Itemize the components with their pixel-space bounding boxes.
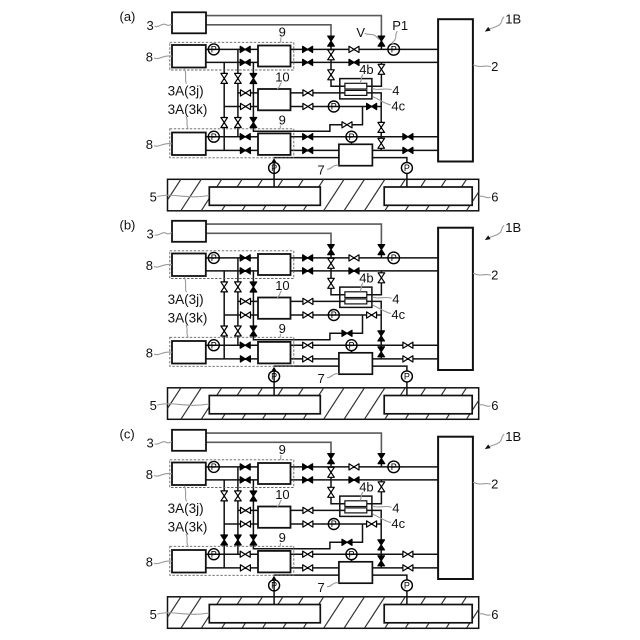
panel a: pump row1 <box>208 44 219 55</box>
svg-text:2: 2 <box>491 268 498 283</box>
panel c: dashed enclosure 3A row1 <box>170 460 294 488</box>
panel c: box 10 unit <box>258 507 291 528</box>
panel c: dashed enclosure 3A row2 <box>170 546 294 575</box>
svg-text:P: P <box>404 581 410 591</box>
panel a: valve V30 box10 upper-left (open) <box>241 90 251 96</box>
svg-text:4b: 4b <box>359 62 373 77</box>
panel a: wire row2 pump line y=136.7 <box>206 136 258 138</box>
svg-text:1B: 1B <box>505 11 521 26</box>
panel b: wire pump stub to box 7 <box>351 351 353 354</box>
panel b: valve V24 <box>235 326 242 336</box>
panel c: heat exchanger 4 lower tube 4c <box>345 508 367 513</box>
panel b: valve V14 <box>378 331 385 341</box>
panel a: control line from box 3 to heat-exchanger branch <box>206 25 331 36</box>
svg-text:P: P <box>271 163 277 173</box>
panel a: valve V9 (closed) <box>303 59 313 65</box>
svg-text:P: P <box>348 340 354 350</box>
panel a: dashed enclosure 3A row2 <box>170 129 294 158</box>
panel a: wire bypass branch down-left to line3 <box>253 107 362 132</box>
panel a: valve V14 <box>378 122 385 132</box>
panel a: valve V21 (open) <box>235 73 242 83</box>
panel a: valve V23 <box>221 118 228 128</box>
panel b: wire pump P6 drop to tank <box>273 371 275 397</box>
svg-text:P: P <box>391 462 397 472</box>
panel a: valve V17 <box>303 147 313 153</box>
panel c: valve V13 bypass <box>342 539 352 545</box>
panel c: arrow into box 9 row2 <box>272 576 277 580</box>
panel c: valve V2 (open) <box>328 467 335 477</box>
svg-text:8: 8 <box>146 258 153 273</box>
panel b: heat exchanger 4 outer <box>340 287 372 307</box>
panel a: valve V11 (open) <box>303 103 313 109</box>
panel c: valve V28 <box>240 551 250 557</box>
panel c: valve V1 (closed) <box>328 454 335 464</box>
svg-text:(a): (a) <box>120 9 136 24</box>
svg-text:P: P <box>271 581 277 591</box>
panel b: pump P1 main <box>388 252 400 264</box>
panel b: wire pipe2 return line y=62.4 <box>291 270 439 272</box>
panel b: valve V20 (open) <box>221 282 228 292</box>
panel a: valve V25 (closed) <box>250 118 257 128</box>
panel c: valve V6 pipe2 (closed) <box>349 477 359 483</box>
panel b: pump P6 below box 9 row2 <box>269 371 280 382</box>
svg-text:P: P <box>391 253 397 263</box>
panel c: valve V9 (closed) <box>303 477 313 483</box>
panel b: valve V30 box10 upper-left (open) <box>241 298 251 304</box>
svg-text:7: 7 <box>318 580 325 595</box>
panel c: valve V11 (open) <box>303 521 313 527</box>
panel c: box 9 row2 unit <box>258 551 291 573</box>
svg-text:3A(3j): 3A(3j) <box>168 501 204 516</box>
svg-text:3A(3k): 3A(3k) <box>168 519 208 534</box>
svg-text:3A(3k): 3A(3k) <box>168 310 208 325</box>
panel c: box 8 row2 heat source <box>172 550 206 573</box>
panel c: valve V5 pipe1 (open) <box>349 464 359 470</box>
panel c: valve V25 (closed) <box>250 535 257 545</box>
panel b: box 8 row1 heat source <box>172 254 206 277</box>
svg-text:5: 5 <box>150 398 157 413</box>
panel a: valve V22 (closed) <box>250 74 257 84</box>
panel a: wire row2 return y=150.4 <box>206 149 258 151</box>
svg-text:8: 8 <box>146 554 153 569</box>
svg-text:10: 10 <box>275 278 289 293</box>
panel b: valve V15 <box>378 347 385 357</box>
panel b: valve V13 bypass <box>342 330 352 336</box>
panel c: wire pump P8 down to buffer tank <box>406 591 408 606</box>
panel c: heat exchanger 4 upper tube 4b <box>345 501 367 507</box>
panel b: wire stub valve V to pipe1 <box>380 255 382 258</box>
panel c: valve V27 (closed) <box>240 477 250 483</box>
svg-text:3A(3j): 3A(3j) <box>168 292 204 307</box>
panel b: dashed enclosure 3A row2 <box>170 337 294 366</box>
panel a: pump hx line <box>328 101 339 112</box>
svg-text:4: 4 <box>392 83 399 98</box>
panel b: pump above box 7 <box>346 340 357 351</box>
panel a: wire pump line y=106.5 box10 to hx <box>291 106 382 108</box>
panel b: box 7 tank <box>339 353 373 374</box>
svg-text:8: 8 <box>146 345 153 360</box>
panel a: wire branch x=381.4 pipe2 to heat exchanger 4 <box>367 62 382 86</box>
panel a: valve V31 box10 lower-left (open) <box>241 103 251 109</box>
svg-text:P: P <box>404 163 410 173</box>
panel b: box 10 unit <box>258 298 291 319</box>
panel c: valve V26 (closed) <box>240 464 250 470</box>
panel c: valve V19 <box>403 565 413 571</box>
svg-text:4c: 4c <box>391 98 405 113</box>
panel a: box 9 row1 unit <box>258 46 291 67</box>
panel b: wire box10 upper-left port <box>238 300 258 302</box>
panel c: valve V24 <box>235 535 242 545</box>
panel a: wire pipe1 supply line y=49.4 <box>291 48 439 50</box>
panel b: buffer tank right in floor <box>384 396 472 414</box>
panel b: valve V9 (closed) <box>303 268 313 274</box>
panel a: wire box10 upper-left port <box>238 92 258 94</box>
panel b: hatched floor slab 5/6 <box>168 388 479 420</box>
panel a: arrow into box 9 row2 <box>272 158 277 162</box>
panel b: wire pump P8 down to buffer tank <box>406 382 408 397</box>
panel c: heat exchanger 4 outer <box>340 496 372 516</box>
panel c: wire bypass branch down-left to line3 <box>253 524 362 549</box>
panel c: pump above box 7 <box>346 549 357 560</box>
panel c: valve V7 (open) <box>378 482 385 492</box>
svg-text:P: P <box>211 253 217 263</box>
svg-text:P: P <box>391 45 397 55</box>
panel a: valve V27 (closed) <box>240 59 250 65</box>
svg-text:9: 9 <box>279 530 286 545</box>
panel a: valve V20 (open) <box>221 73 228 83</box>
panel a: pump P1 main <box>388 44 400 56</box>
panel c: pump row2 <box>208 549 219 560</box>
svg-text:10: 10 <box>275 69 289 84</box>
panel a: wire box10 lower-left port <box>224 106 258 108</box>
panel a: wire pump P6 drop to tank <box>273 162 275 188</box>
svg-text:10: 10 <box>275 487 289 502</box>
panel b: pump row2 <box>208 340 219 351</box>
panel a: wire pump P8 down to buffer tank <box>406 173 408 188</box>
panel a: valve V26 (closed) <box>240 46 250 52</box>
panel a: wire stub valve V to pipe1 <box>380 46 382 49</box>
svg-text:3: 3 <box>147 436 154 451</box>
panel a: wire row1 pump line y=49.4 <box>206 48 258 50</box>
panel c: valve V22 (closed) <box>250 491 257 501</box>
panel a: box 8 row2 heat source <box>172 133 206 156</box>
panel c: pump hx line <box>328 519 339 530</box>
panel a: valve V16 <box>303 134 313 140</box>
panel a: pump P6 below box 9 row2 <box>269 162 280 173</box>
panel c: valve V23 <box>221 535 228 545</box>
panel c: valve V10 (open) <box>303 507 313 513</box>
panel c: wire row2 return y=150.4 <box>206 567 258 569</box>
svg-text:3A(3k): 3A(3k) <box>168 102 208 117</box>
panel c: wire branch x=381.4 pipe2 to heat exchanger 4 <box>367 480 382 504</box>
svg-text:3A(3j): 3A(3j) <box>168 83 204 98</box>
svg-text:P: P <box>211 340 217 350</box>
svg-text:5: 5 <box>150 189 157 204</box>
panel c: valve V29 <box>240 565 250 571</box>
panel c: valve V18 <box>403 551 413 557</box>
panel a: valve V1 (closed) <box>328 36 335 46</box>
panel b: box 2 load unit <box>438 228 473 370</box>
panel a: wire branch x=331 to heat exchanger 4 <box>331 46 345 86</box>
panel b: wire tank line y=157.6 to box 7 <box>274 365 339 367</box>
panel b: valve V29 <box>240 356 250 362</box>
svg-text:P: P <box>271 372 277 382</box>
panel a: wire pump stub to box 7 <box>351 142 353 145</box>
panel c: wire box10 lower-left port <box>224 523 258 525</box>
panel b: wire riser line1 x=224.2 <box>223 271 225 359</box>
svg-text:P1: P1 <box>392 18 408 33</box>
panel a: wire riser line2 x=237.9 <box>237 49 239 136</box>
panel c: wire pump stub to box 7 <box>351 560 353 563</box>
panel b: box 8 row2 heat source <box>172 341 206 364</box>
panel c: wire riser line3 x=253.4 <box>253 480 330 549</box>
panel c: valve V30 box10 upper-left (open) <box>241 507 251 513</box>
svg-text:4: 4 <box>392 291 399 306</box>
panel c: wire stub valve V to pipe1 <box>380 464 382 467</box>
panel b: pump P8 right tank <box>401 371 412 382</box>
panel c: wire pipe2 return line y=62.4 <box>291 479 439 481</box>
panel a: valve V7 (open) <box>378 64 385 74</box>
panel a: valve V15 <box>378 138 385 148</box>
svg-text:7: 7 <box>318 371 325 386</box>
svg-text:P: P <box>404 372 410 382</box>
panel b: wire box 7 to pump P8 <box>372 366 407 371</box>
panel a: pump above box 7 <box>346 131 357 142</box>
panel c: valve V main (closed) <box>378 454 385 464</box>
panel a: control line from box 3 to valve V <box>206 16 381 37</box>
panel b: valve V7 (open) <box>378 273 385 283</box>
panel c: valve V31 box10 lower-left (open) <box>241 521 251 527</box>
svg-text:P: P <box>348 132 354 142</box>
panel c: pump row1 <box>208 461 219 472</box>
panel b: valve V16 <box>303 342 313 348</box>
panel a: wire tank line y=157.6 to box 7 <box>274 157 339 159</box>
panel c: wire row1 pump line y=49.4 <box>206 466 258 468</box>
panel b: valve V12 hx outlet <box>367 312 377 318</box>
svg-text:7: 7 <box>318 162 325 177</box>
panel c: wire riser line1 x=224.2 <box>223 480 225 568</box>
panel a: box 10 unit <box>258 89 291 110</box>
panel c: wire vertical x=381.4 to pipe4 <box>380 524 382 568</box>
panel b: wire row2 return y=150.4 <box>206 358 258 360</box>
svg-text:4c: 4c <box>391 307 405 322</box>
panel a: valve V29 <box>240 147 250 153</box>
panel a: valve V19 <box>403 147 413 153</box>
panel a: wire riser line1 x=224.2 <box>223 62 225 150</box>
panel a: valve V5 pipe1 (open) <box>349 46 359 52</box>
panel b: buffer tank left in floor <box>209 396 320 414</box>
panel a: valve V2 (open) <box>328 50 335 60</box>
panel b: wire riser line2 x=237.9 <box>237 258 239 345</box>
panel b: dashed enclosure 3A row1 <box>170 251 294 279</box>
panel c: wire pipe3 y=136.7 <box>291 553 439 555</box>
panel b: wire bypass branch down-left to line3 <box>253 315 362 340</box>
panel a: heat exchanger 4 lower tube 4c <box>345 90 367 95</box>
panel a: wire box 7 to pump P8 <box>372 158 407 163</box>
panel a: valve V6 pipe2 (closed) <box>349 59 359 65</box>
svg-text:6: 6 <box>491 189 498 204</box>
panel c: wire lower tube right port down <box>367 510 381 524</box>
panel b: wire row2 pump line y=136.7 <box>206 344 258 346</box>
panel a: wire lower tube left port from box 10 <box>291 92 345 94</box>
panel b: wire box10 lower-left port <box>224 314 258 316</box>
panel c: wire tank line y=157.6 to box 7 <box>274 574 339 576</box>
panel a: valve V28 <box>240 134 250 140</box>
svg-text:P: P <box>331 310 337 320</box>
svg-text:2: 2 <box>491 59 498 74</box>
panel a: box 9 row2 unit <box>258 133 291 155</box>
panel b: valve V17 <box>303 356 313 362</box>
panel b: wire lower tube left port from box 10 <box>291 300 345 302</box>
panel c: control line from box 3 to heat-exchanger branch <box>206 442 331 453</box>
panel c: box 2 load unit <box>438 437 473 579</box>
panel c: box 3 controller <box>172 430 206 451</box>
svg-text:3: 3 <box>147 227 154 242</box>
svg-text:4b: 4b <box>359 479 373 494</box>
svg-text:1B: 1B <box>505 220 521 235</box>
panel b: wire branch x=331 to heat exchanger 4 <box>331 255 345 295</box>
svg-text:(c): (c) <box>120 426 135 441</box>
panel c: pump P1 main <box>388 461 400 473</box>
panel b: box 9 row1 unit <box>258 254 291 275</box>
panel c: wire riser line2 x=237.9 <box>237 467 239 554</box>
panel b: valve V25 (closed) <box>250 326 257 336</box>
panel b: wire pipe3 y=136.7 <box>291 344 439 346</box>
svg-text:P: P <box>331 519 337 529</box>
panel c: box 9 row1 unit <box>258 463 291 484</box>
panel a: heat exchanger 4 outer <box>340 79 372 99</box>
svg-text:9: 9 <box>279 112 286 127</box>
panel c: valve V20 (open) <box>221 491 228 501</box>
panel c: valve V3 (open) <box>328 487 335 497</box>
panel b: valve V27 (closed) <box>240 268 250 274</box>
panel b: wire riser line3 x=253.4 <box>253 271 330 340</box>
panel c: wire pump line y=106.5 box10 to hx <box>291 523 382 525</box>
panel b: wire pump line y=106.5 box10 to hx <box>291 314 382 316</box>
panel c: wire box10 upper-left port <box>238 509 258 511</box>
panel b: box 3 controller <box>172 221 206 242</box>
panel c: box 8 row1 heat source <box>172 463 206 486</box>
svg-text:9: 9 <box>279 24 286 39</box>
panel a: pump row2 <box>208 131 219 142</box>
panel a: box 3 controller <box>172 12 206 33</box>
panel a: wire vertical x=381.4 to pipe4 <box>380 107 382 151</box>
svg-text:8: 8 <box>146 467 153 482</box>
panel b: heat exchanger 4 lower tube 4c <box>345 299 367 304</box>
panel a: box 8 row1 heat source <box>172 45 206 68</box>
svg-text:4: 4 <box>392 500 399 515</box>
panel b: valve V5 pipe1 (open) <box>349 255 359 261</box>
panel c: wire lower tube left port from box 10 <box>291 509 345 511</box>
panel c: box 7 tank <box>339 562 373 583</box>
panel a: wire pipe3 y=136.7 <box>291 136 439 138</box>
panel c: wire pipe4 y=150.4 <box>291 567 439 569</box>
panel c: valve V14 <box>378 540 385 550</box>
svg-text:6: 6 <box>491 607 498 622</box>
panel a: buffer tank right in floor <box>384 187 472 205</box>
panel b: valve V main (closed) <box>378 245 385 255</box>
svg-text:2: 2 <box>491 477 498 492</box>
svg-text:P: P <box>331 102 337 112</box>
panel b: control line from box 3 to heat-exchanger branch <box>206 233 331 244</box>
panel b: wire branch x=381.4 pipe2 to heat exchanger 4 <box>367 271 382 295</box>
panel b: valve V28 <box>240 342 250 348</box>
svg-text:(b): (b) <box>120 217 136 232</box>
panel c: valve V17 <box>303 565 313 571</box>
panel a: valve V24 <box>235 118 242 128</box>
svg-text:P: P <box>211 45 217 55</box>
panel c: wire row1 return y=62.4 <box>206 479 258 481</box>
panel b: pump row1 <box>208 252 219 263</box>
svg-text:8: 8 <box>146 49 153 64</box>
panel b: valve V19 <box>403 356 413 362</box>
panel a: valve V12 hx outlet <box>367 103 377 109</box>
svg-text:P: P <box>348 549 354 559</box>
panel c: wire row2 pump line y=136.7 <box>206 553 258 555</box>
svg-text:9: 9 <box>279 321 286 336</box>
panel c: pump P8 right tank <box>401 580 412 591</box>
svg-text:8: 8 <box>146 137 153 152</box>
svg-text:P: P <box>211 549 217 559</box>
panel a: wire row1 return y=62.4 <box>206 61 258 63</box>
panel b: pump hx line <box>328 310 339 321</box>
panel b: heat exchanger 4 upper tube 4b <box>345 292 367 298</box>
panel a: valve V13 bypass <box>342 122 352 128</box>
panel b: wire pipe4 y=150.4 <box>291 358 439 360</box>
panel a: valve V10 (open) <box>303 90 313 96</box>
panel a: valve V18 <box>403 134 413 140</box>
svg-text:P: P <box>211 462 217 472</box>
svg-text:6: 6 <box>491 398 498 413</box>
panel a: hatched floor slab 5/6 <box>168 179 479 211</box>
panel b: valve V8 (closed) <box>303 255 313 261</box>
panel b: wire row1 return y=62.4 <box>206 270 258 272</box>
panel c: buffer tank left in floor <box>209 605 320 623</box>
panel b: valve V1 (closed) <box>328 245 335 255</box>
panel a: valve V8 (closed) <box>303 46 313 52</box>
panel a: heat exchanger 4 upper tube 4b <box>345 83 367 89</box>
panel b: control line from box 3 to valve V <box>206 224 381 245</box>
panel c: wire box 7 to pump P8 <box>372 575 407 580</box>
panel a: box 7 tank <box>339 144 373 165</box>
panel c: hatched floor slab 5/6 <box>168 597 479 629</box>
panel b: wire lower tube right port down <box>367 301 381 315</box>
panel b: valve V31 box10 lower-left (open) <box>241 312 251 318</box>
panel c: valve V21 (open) <box>235 491 242 501</box>
panel b: valve V18 <box>403 342 413 348</box>
svg-text:5: 5 <box>150 607 157 622</box>
svg-text:9: 9 <box>279 442 286 457</box>
panel c: valve V8 (closed) <box>303 464 313 470</box>
panel a: wire riser line3 x=253.4 <box>253 62 330 131</box>
panel c: valve V16 <box>303 551 313 557</box>
panel a: box 2 load unit <box>438 19 473 161</box>
svg-text:3: 3 <box>147 18 154 33</box>
panel b: valve V10 (open) <box>303 298 313 304</box>
svg-text:4c: 4c <box>391 516 405 531</box>
panel b: wire row1 pump line y=49.4 <box>206 257 258 259</box>
panel b: wire pipe1 supply line y=49.4 <box>291 257 439 259</box>
panel b: valve V21 (open) <box>235 282 242 292</box>
panel b: valve V26 (closed) <box>240 255 250 261</box>
panel c: wire pipe1 supply line y=49.4 <box>291 466 439 468</box>
panel c: wire branch x=331 to heat exchanger 4 <box>331 464 345 504</box>
svg-text:1B: 1B <box>505 429 521 444</box>
panel c: valve V15 <box>378 556 385 566</box>
panel a: valve V3 (open) <box>328 70 335 80</box>
svg-text:V: V <box>356 25 365 40</box>
panel b: valve V11 (open) <box>303 312 313 318</box>
